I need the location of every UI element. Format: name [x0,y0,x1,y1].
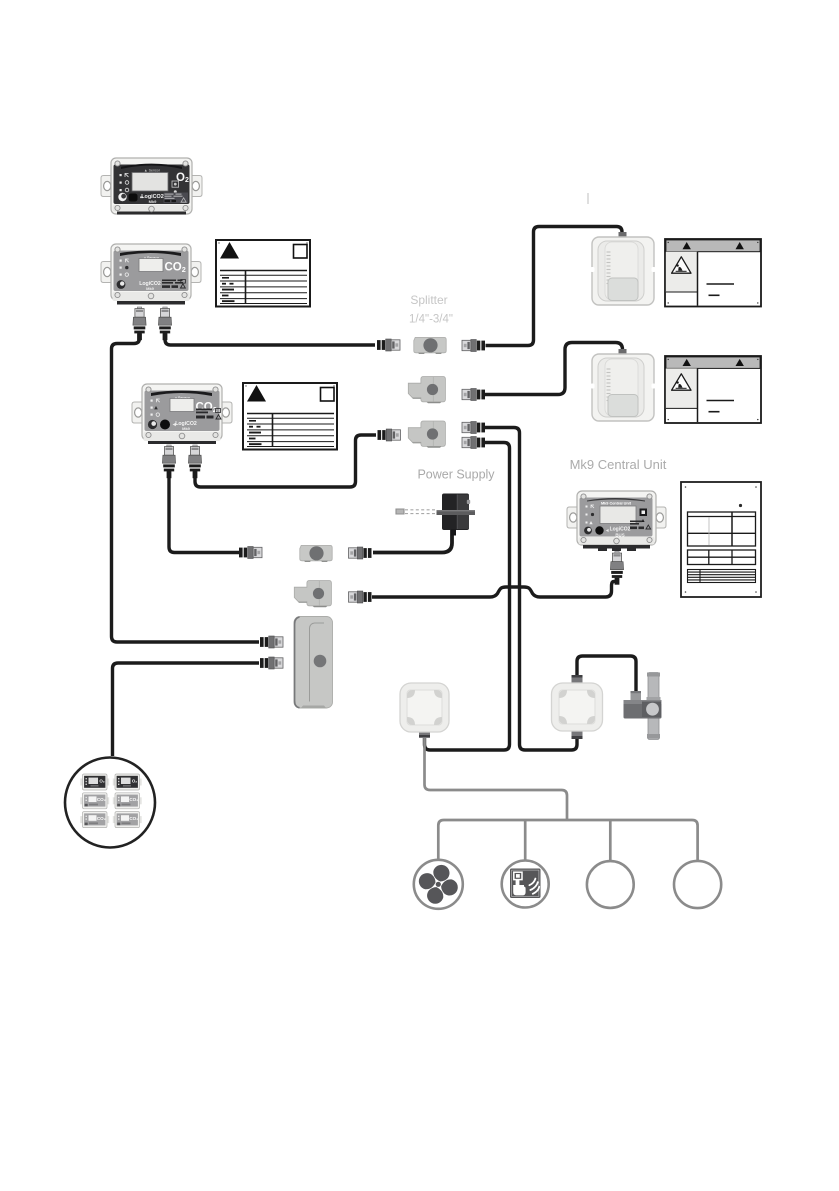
gray drop to call-point circle [524,820,527,860]
splitter1 right connector [462,340,485,352]
gray face panel [580,498,653,537]
wire: splitter3 lower right connector down to relay1 [425,443,510,751]
certification label block [162,280,185,289]
instruction sheet [681,482,761,597]
gray bus with end drops to fan and circle4 [438,820,697,861]
relay box 2 [552,675,603,739]
splitter2 (notched splitter) [408,377,445,404]
certification label block [630,521,651,530]
svg-text:Mk9: Mk9 [182,426,191,431]
wire: splitter1 right connector up to alarm1 [486,227,623,346]
svg-text:1/4"-3/4": 1/4"-3/4" [409,314,453,326]
splitter5 (notched splitter) [294,581,331,608]
gray feed wire from relay1 [425,737,568,820]
LED icons [120,174,129,192]
RJ45 plug left under sensor [162,445,175,478]
mini CO2 sensor 4 [113,812,142,828]
LED icons [586,505,595,524]
data table [220,271,307,304]
enclosure frame [111,244,191,300]
svg-text:Splitter: Splitter [410,293,447,307]
wire: relay2 top to gas valve inlet [577,656,636,691]
RJ45 plug under central unit [610,552,623,585]
junction box lower port connector [260,657,283,669]
black triangle [220,242,239,259]
hazard sign 2 [665,356,761,423]
table 1 [688,512,756,546]
enclosure frame [142,384,222,440]
RJ45 plug right under sensor [158,307,171,340]
empty output circle 4 [674,861,721,908]
wire: CO2 sensor1 right plug to splitter1 left connector [165,331,375,345]
fan blades icon [417,863,460,906]
wire: CO2 sensor2 right plug to splitter3 left connector [195,435,376,487]
corner screws [115,161,188,212]
gray drop to circle3 [609,820,612,860]
tiny field texts [222,277,235,302]
power supply adapter [396,494,475,536]
warning placard label (next to CO2 sensor 2) [243,383,337,450]
enclosure frame [111,158,192,214]
small square box top right [321,388,335,402]
bottom shadow band [117,300,185,305]
junction box (vertical coupler) [294,617,333,709]
corner screws [581,494,652,544]
logo [117,280,126,289]
svg-text:BUS: BUS [615,533,624,538]
svg-text:Mk9 Central Unit: Mk9 Central Unit [570,457,667,472]
mounting ear left [101,262,112,283]
mounting ear left [132,402,143,423]
ghost plug with dashed lead [396,509,435,514]
CO2 sensor unit #2 [132,384,232,478]
square button [640,509,648,517]
RJ45 plug left under sensor [133,307,146,340]
warning placard label (next to CO2 sensor 1) [216,240,310,307]
mini O2 sensor 1 [80,774,109,790]
fan output circle [414,860,463,909]
svg-text:Mk9: Mk9 [146,286,155,291]
wire: junction box lower port to sensor hub circle [113,663,260,756]
svg-text:Power Supply: Power Supply [417,468,495,482]
hazard sign 1 [665,239,761,307]
black triangle [247,385,266,402]
top dark arch [120,251,181,257]
prong bar [437,510,476,515]
corner screws [115,247,187,299]
splitter4 left connector [239,547,262,559]
LCD screen [132,173,168,192]
logo [118,193,126,201]
wire: splitter3 upper right connector down to relay2 [485,428,578,751]
dark face panel [114,165,190,205]
svg-text:Mk9 Central Unit: Mk9 Central Unit [601,502,632,506]
splitter3 left connector [378,429,401,441]
CO2 sensor unit #1 [101,244,201,340]
table 2 [688,550,756,565]
svg-text:▲ Sensor: ▲ Sensor [144,169,161,173]
gray face panel [145,391,220,432]
icon: finger pressing alarm button with flames [513,872,539,895]
LCD screen [600,506,636,524]
small boxed icon right of LCD [172,181,179,187]
splitter3 lower right connector [462,437,485,449]
mini O2 sensor 2 [113,774,142,790]
LED icons [151,399,160,416]
corner screws [146,387,218,439]
enclosure frame [577,491,656,545]
button [160,420,170,430]
LCD screen [139,259,163,272]
junction box upper port connector [260,636,283,648]
relay box 1 [400,683,449,738]
wire: CO2 sensor1 left plug down-left-down to junction box top port [112,331,260,642]
mini CO2 sensor 2 [113,793,142,809]
suffocation warning triangle icon [672,257,691,273]
gray distribution tree from relay1 down to output circles [425,737,698,861]
mounting ear right [221,402,232,423]
wire: splitter2 right connector up-right to alarm2 [485,343,623,395]
splitter4 right connector [349,547,372,559]
content groups appended below [101,158,667,585]
splitter3 (notched splitter) [408,421,445,448]
gray face panel [114,251,189,292]
mounting ear left [567,507,578,528]
splitter3 upper right connector [462,422,485,434]
data table [247,414,334,447]
RJ45 plug right under sensor [188,445,201,478]
solenoid gas valve [624,673,662,740]
wire: power supply cord to splitter4 right connector [373,528,452,553]
LCD screen [170,399,194,412]
certification label block [196,409,221,420]
top dark arch [587,498,645,502]
Mk9 central unit [567,457,667,585]
O2 sensor unit (top left) [101,158,202,215]
wire: CO2 sensor2 left plug to splitter4 left connector [169,469,239,553]
tiny field texts [249,420,262,445]
certification label block [164,193,189,204]
mounting ear right [190,262,201,283]
mounting ear right [191,176,202,197]
bottom shadow band [117,211,186,215]
fire alarm call point circle [502,861,549,908]
splitter2 right connector [462,389,485,401]
bottom shadow band [148,440,216,444]
sensor hub circle [65,758,155,848]
faint tick mark above alarm1 [587,193,589,204]
alarm horn unit 2 [591,349,656,421]
mini CO2 sensor 3 [80,812,109,828]
mounting ear left [101,176,112,197]
suffocation warning triangle icon [672,374,691,390]
mini CO2 sensor 1 [80,793,109,809]
logo [148,420,157,429]
wire: splitter5 right connector to central unit plug (with crossover bump) [372,578,617,597]
mounting ear right [655,507,666,528]
splitter1 left connector [377,339,400,351]
small square box top right [294,245,308,259]
empty output circle 3 [587,861,634,908]
bottom shadow band with tabs [583,545,650,549]
table 3 [688,570,756,583]
alarm horn unit 1 [591,232,656,305]
button [595,526,603,534]
logo [584,527,592,535]
splitter1 (top flat splitter) [414,337,446,354]
button [129,194,138,202]
splitter5 right connector [349,591,372,603]
splitter4 (flat splitter) [300,545,332,562]
LED icons [120,259,129,276]
svg-text:Mk9: Mk9 [149,199,158,204]
